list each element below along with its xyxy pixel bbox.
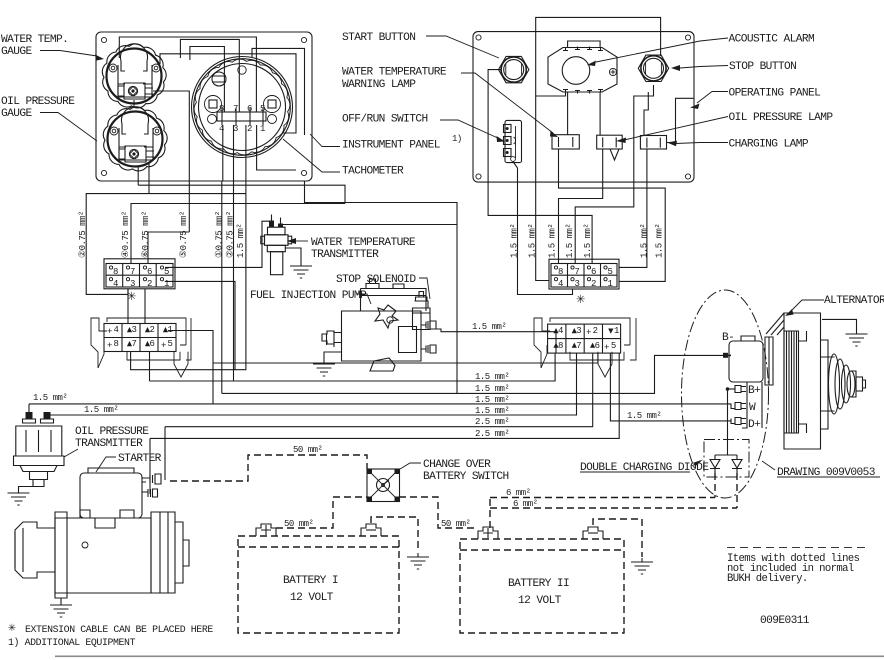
tachometer pin 8 (221, 108, 223, 125)
off/run switch inner plate (515, 126, 517, 158)
wire tach pin1 drop (222, 125, 224, 181)
svg-text:+: + (107, 341, 112, 351)
wire bundle h203 (131, 204, 345, 264)
alternator terminal plate (742, 382, 762, 428)
tachometer right mount square (264, 96, 281, 113)
svg-text:STOP BUTTON: STOP BUTTON (729, 61, 796, 73)
svg-text:OIL PRESSURE: OIL PRESSURE (75, 426, 149, 438)
battery II plus terminal (478, 527, 498, 539)
svg-text:B-: B- (722, 332, 734, 344)
svg-text:6 mm²: 6 mm² (513, 499, 538, 509)
starter motor body (15, 510, 189, 598)
oil pressure gauge bracket (119, 128, 153, 160)
off/run switch terminal 2 (504, 137, 512, 145)
svg-text:START BUTTON: START BUTTON (342, 32, 415, 44)
diode 2 (732, 455, 742, 474)
wire tach drop to R1 (233, 181, 235, 381)
starter ground (60, 598, 62, 602)
CN1 pin +7 (127, 341, 132, 346)
TB1 pin 2 (143, 278, 146, 281)
battery II minus terminal (583, 527, 603, 539)
alternator pulley (829, 354, 866, 414)
screw hole bottom-left (101, 170, 106, 175)
connector CN2 block (548, 324, 621, 353)
dashed wire 6mm upper (490, 497, 715, 499)
svg-text:1.5 mm²: 1.5 mm² (475, 406, 509, 416)
connector CN1 block (104, 324, 176, 352)
TB2 pin 3 (571, 278, 574, 281)
svg-text:+: + (604, 343, 609, 353)
row R2 1.5mm (222, 355, 724, 393)
TB2 pin 5 (604, 266, 607, 269)
svg-text:1.5 mm²: 1.5 mm² (640, 224, 650, 258)
wire starter feed 1 (164, 427, 166, 480)
tachometer small hole (238, 66, 246, 74)
TB1 pin 5 (160, 266, 163, 269)
W terminal (731, 403, 746, 410)
TB2 pin 1 (604, 278, 607, 281)
wire tach pin drop right (245, 125, 247, 194)
charging lamp (640, 136, 666, 150)
svg-text:5: 5 (608, 267, 613, 277)
svg-text:OIL PRESSURE: OIL PRESSURE (1, 96, 75, 108)
alternator ground (822, 319, 857, 330)
change over battery switch (367, 469, 400, 502)
svg-text:1): 1) (452, 134, 462, 144)
TB1 pin 7 (126, 266, 129, 269)
svg-text:1: 1 (608, 279, 613, 289)
svg-text:2: 2 (593, 326, 598, 336)
acoustic alarm screw (609, 68, 616, 75)
svg-text:①0.75 mm²: ①0.75 mm² (215, 211, 225, 258)
svg-text:6: 6 (591, 267, 596, 277)
svg-text:009E0311: 009E0311 (760, 615, 810, 627)
battery I minus terminal (361, 524, 381, 536)
svg-text:4: 4 (558, 279, 563, 289)
svg-text:1.5 mm²: 1.5 mm² (236, 224, 246, 258)
OPT ground (19, 487, 34, 490)
wire tach drop to R2 (221, 181, 223, 393)
water temp warning lamp (552, 135, 579, 149)
svg-text:6 mm²: 6 mm² (506, 488, 531, 498)
svg-text:ACOUSTIC ALARM: ACOUSTIC ALARM (729, 34, 815, 46)
svg-text:1.5 mm²: 1.5 mm² (565, 224, 575, 258)
stop solenoid (413, 292, 431, 330)
svg-text:BATTERY II: BATTERY II (508, 578, 569, 590)
svg-text:2: 2 (150, 325, 155, 335)
screw hole top-right (301, 37, 306, 42)
wire alarm left to TB2 pin4 (536, 93, 566, 281)
water temp gauge left screw (109, 64, 117, 72)
svg-text:GAUGE: GAUGE (1, 46, 32, 58)
svg-text:+: + (586, 328, 591, 338)
row R5 2.5mm (165, 353, 593, 427)
wire TB1 pin1 right (165, 281, 235, 369)
wire alarm to lamp2 (599, 93, 601, 136)
screw hole bottom-right (301, 170, 306, 175)
wire stop to lamp3 (644, 92, 648, 136)
TB2 pin 8 (554, 266, 557, 269)
oil pressure gauge right screw (153, 127, 161, 135)
svg-text:1.5 mm²: 1.5 mm² (84, 405, 118, 415)
start button outer circle (501, 57, 526, 82)
svg-text:5: 5 (164, 267, 169, 277)
wire diode to 6mm lower (736, 473, 738, 508)
oil pressure gauge cup (122, 107, 149, 134)
svg-text:STARTER: STARTER (118, 453, 162, 465)
screw hole top-right (685, 35, 690, 40)
tachometer pin 6 (249, 108, 251, 125)
CN1 pin +1 (163, 327, 168, 332)
CN2 pin +4 (553, 328, 558, 333)
svg-text:1.5 mm²: 1.5 mm² (33, 393, 67, 403)
svg-text:1.5 mm²: 1.5 mm² (475, 395, 509, 405)
terminal block TB2 (549, 259, 619, 289)
stop button hex nut (638, 55, 668, 81)
wire TB1 pin6 drop (148, 232, 189, 263)
oil pressure gauge bezel (103, 107, 167, 171)
wire starter feed 2 (149, 438, 151, 494)
terminal block TB1 (104, 259, 175, 289)
wire bundle h185 (138, 185, 345, 203)
water temp gauge cup (121, 44, 148, 71)
svg-text:④0.75 mm²: ④0.75 mm² (121, 211, 131, 258)
off/run switch terminal 3 (504, 149, 512, 157)
dashed wire 6mm lower (490, 507, 737, 509)
wire lamp1 to TB2 pin1 (559, 149, 666, 281)
TB2 pin 2 (587, 278, 590, 281)
water temp gauge bracket (118, 65, 152, 97)
connector CN2 housing (534, 318, 636, 377)
svg-text:EXTENSION CABLE CAN BE PLACED: EXTENSION CABLE CAN BE PLACED HERE (25, 624, 213, 635)
svg-text:TRANSMITTER: TRANSMITTER (75, 438, 143, 450)
svg-text:50 mm²: 50 mm² (441, 519, 471, 529)
battery I plus terminal (256, 524, 276, 536)
water temp gauge ring (107, 49, 162, 104)
svg-text:2: 2 (591, 279, 596, 289)
svg-text:BATTERY SWITCH: BATTERY SWITCH (423, 471, 509, 483)
wire TB1 pin2 to CN1 (144, 289, 146, 324)
battery I box (238, 536, 399, 633)
row R6 2.5mm (150, 353, 619, 438)
D+ terminal (731, 418, 746, 425)
note items dotted (727, 547, 870, 549)
svg-text:1.5 mm²: 1.5 mm² (475, 372, 509, 382)
water temp gauge right screw (152, 64, 160, 72)
CN2 pin +6 (590, 343, 595, 348)
svg-text:1.5 mm²: 1.5 mm² (472, 322, 506, 332)
svg-text:7: 7 (575, 267, 580, 277)
battery II inner line (460, 549, 624, 551)
svg-text:WATER TEMPERATURE: WATER TEMPERATURE (311, 237, 416, 249)
dashed wire starter to switch 50mm (170, 455, 367, 481)
TB1 pin 8 (109, 266, 112, 269)
wire WT to OP gauge (133, 100, 135, 108)
wire alarm top loop (568, 41, 601, 47)
svg-text:⑥0.75 mm²: ⑥0.75 mm² (141, 211, 151, 258)
wire TB1 pin3 to CN1 (127, 289, 129, 324)
TB1 pin 6 (143, 266, 146, 269)
wire CN1 +1 to h363 (168, 331, 598, 405)
diode internal bus (715, 454, 737, 456)
wire start button left (488, 70, 592, 264)
svg-text:D+: D+ (748, 419, 761, 431)
wire tach pin2 drop (233, 125, 235, 181)
wire loop B instrument panel (180, 39, 239, 112)
svg-text:5: 5 (260, 104, 265, 114)
tachometer inner ring (199, 64, 286, 151)
alternator body (766, 313, 835, 449)
svg-text:7: 7 (132, 339, 137, 349)
off/run switch body (505, 120, 522, 162)
wire tach pin drop 4 (257, 125, 296, 170)
svg-text:8: 8 (114, 339, 119, 349)
tachometer left mount square (205, 96, 222, 113)
svg-text:TRANSMITTER: TRANSMITTER (311, 249, 379, 261)
svg-text:12 VOLT: 12 VOLT (518, 595, 562, 607)
pump terminal upper (421, 321, 436, 329)
svg-text:50 mm²: 50 mm² (293, 445, 323, 455)
battery I ground (407, 553, 429, 569)
tachometer connector bar (217, 112, 266, 121)
wire lamp2 to TB2 pin8 (559, 149, 603, 264)
wire B+ to diode (727, 389, 729, 455)
TB1 pin 1 (160, 278, 163, 281)
wire CN1 +7 bottom loop (131, 194, 246, 370)
svg-text:4: 4 (114, 325, 119, 335)
svg-text:1: 1 (614, 326, 619, 336)
svg-text:OFF/RUN SWITCH: OFF/RUN SWITCH (342, 114, 428, 126)
row D+ feed 1.5mm (610, 353, 731, 421)
svg-text:ALTERNATOR: ALTERNATOR (824, 295, 884, 307)
svg-text:7: 7 (130, 267, 135, 277)
wire diode to 6mm upper (714, 473, 716, 498)
B- terminal pin (724, 354, 731, 356)
svg-text:FUEL INJECTION PUMP: FUEL INJECTION PUMP (250, 290, 367, 302)
stop button inner circle (644, 58, 664, 78)
double charging diode box (704, 440, 749, 478)
svg-text:6: 6 (147, 267, 152, 277)
CN2 pin +8 (553, 343, 558, 348)
wire loop A instrument panel (119, 37, 256, 112)
svg-text:OIL PRESSURE LAMP: OIL PRESSURE LAMP (729, 112, 834, 124)
operating panel (473, 32, 694, 183)
svg-text:1) ADDITIONAL EQUIPMENT: 1) ADDITIONAL EQUIPMENT (8, 637, 136, 648)
off/run switch bottom circle (511, 157, 516, 162)
svg-text:✳: ✳ (576, 291, 585, 308)
CN1 pin +6 (145, 341, 150, 346)
wire WTT drop to R2 (456, 225, 458, 394)
TB2 pin 6 (587, 266, 590, 269)
wire gauge pin7 drop (148, 162, 150, 194)
svg-text:4: 4 (558, 326, 563, 336)
dashed wire battery I plus to switch (276, 497, 367, 528)
svg-text:1.5 mm²: 1.5 mm² (583, 224, 593, 258)
svg-text:2: 2 (147, 279, 152, 289)
svg-text:5: 5 (611, 341, 616, 351)
tachometer pin 5 (262, 108, 264, 125)
acoustic alarm top terminals (563, 47, 603, 51)
svg-text:WATER TEMPERATURE: WATER TEMPERATURE (342, 67, 447, 79)
svg-text:BATTERY I: BATTERY I (283, 575, 338, 587)
dashed wire battery I minus to ground (371, 517, 418, 552)
screw hole top-left (101, 37, 106, 42)
alternator regulator B- box (729, 336, 773, 385)
dashed wire switch to battery II plus (399, 497, 478, 528)
WTT ground (285, 248, 301, 262)
start button face lines (506, 64, 522, 75)
svg-text:BUKH delivery.: BUKH delivery. (727, 573, 808, 585)
svg-text:12 VOLT: 12 VOLT (290, 592, 334, 604)
wire gauge terminal to TB1 pin6 (153, 91, 189, 232)
stop button outer circle (641, 56, 666, 81)
instrument panel (96, 32, 312, 181)
svg-text:7: 7 (233, 104, 238, 114)
tachometer ring 2 (194, 59, 291, 156)
svg-text:1.5 mm²: 1.5 mm² (548, 224, 558, 258)
TB2 pin 4 (554, 278, 557, 281)
screw hole bottom-left (476, 174, 481, 179)
row R1 1.5mm (150, 353, 556, 381)
tachometer lamp cap (212, 72, 226, 86)
svg-text:8: 8 (558, 341, 563, 351)
tachometer left mount circle (208, 115, 217, 124)
CN1 pin +2 (145, 327, 150, 332)
starter terminal S (142, 489, 158, 497)
start button inner circle (504, 60, 524, 80)
CN2 pin +1 (608, 329, 613, 334)
svg-text:INSTRUMENT PANEL: INSTRUMENT PANEL (342, 140, 441, 152)
TB1 pin 3 (126, 278, 129, 281)
connector CN1 housing (91, 318, 191, 377)
svg-text:6: 6 (595, 341, 600, 351)
wire lamp3 to TB2 pin5 (619, 149, 647, 267)
screw hole bottom-right (685, 174, 690, 179)
svg-text:6: 6 (150, 339, 155, 349)
tachometer outer ring (192, 57, 293, 158)
bottom rule (55, 656, 884, 658)
wire bundle h193 (86, 194, 246, 295)
B+ terminal (735, 386, 746, 393)
battery II box (460, 539, 624, 633)
svg-text:1.5 mm²: 1.5 mm² (627, 411, 661, 421)
svg-text:50 mm²: 50 mm² (284, 519, 314, 529)
svg-text:1.5 mm²: 1.5 mm² (475, 384, 509, 394)
wire panel drop to bundle (305, 181, 458, 225)
svg-text:3: 3 (575, 279, 580, 289)
TB1 pin 4 (109, 278, 112, 281)
tachometer scallop ring (194, 59, 290, 155)
wire lamp2 lamp3 V link (610, 149, 619, 160)
svg-text:OPERATING PANEL: OPERATING PANEL (729, 88, 822, 100)
svg-text:3: 3 (576, 326, 581, 336)
oil pressure transmitter (14, 404, 65, 487)
TB2 pin 7 (571, 266, 574, 269)
svg-text:②0.75 mm²: ②0.75 mm² (78, 211, 88, 258)
wire stop button to TB2 pin7 (575, 85, 653, 264)
tachometer pin 7 (235, 108, 237, 125)
svg-text:3: 3 (132, 325, 137, 335)
pump ground (324, 352, 341, 360)
oil pressure gauge ring (108, 112, 163, 167)
water temperature transmitter (261, 215, 292, 275)
row R3 1.5mm oil pressure (29, 403, 731, 405)
svg-text:✳: ✳ (8, 620, 16, 635)
svg-text:STOP SOLENOID: STOP SOLENOID (336, 274, 416, 286)
svg-text:GAUGE: GAUGE (1, 108, 32, 120)
svg-text:1.5 mm²: 1.5 mm² (510, 224, 520, 258)
dashed wire battery II plus up (489, 498, 491, 529)
wire CN1 +6 bottom to row1 (149, 352, 151, 381)
svg-text:4: 4 (113, 279, 118, 289)
svg-text:5: 5 (168, 339, 173, 349)
svg-text:CHARGING LAMP: CHARGING LAMP (729, 139, 809, 151)
oil pressure lamp (597, 135, 623, 149)
svg-text:2: 2 (247, 124, 252, 134)
diode 1 (710, 455, 720, 474)
acoustic alarm bottom terminals (563, 90, 603, 94)
oil pressure gauge left screw (110, 127, 118, 135)
pump terminal lower (421, 345, 436, 353)
svg-text:2.5 mm²: 2.5 mm² (475, 429, 509, 439)
acoustic alarm circle (562, 57, 590, 85)
wire lamp3 right link (667, 98, 695, 142)
wire alarm to lamp1 (567, 93, 569, 135)
svg-text:1: 1 (260, 124, 265, 134)
wire off/run drop (513, 162, 573, 295)
svg-text:2.5 mm²: 2.5 mm² (475, 417, 509, 427)
CN2 pin +3 (572, 328, 577, 333)
CN2 pin +7 (572, 343, 577, 348)
dashed wire battery II minus to ground (593, 519, 642, 557)
wire gauge link E (160, 54, 296, 133)
battery II ground (631, 558, 653, 574)
start button hex nut (499, 56, 529, 82)
svg-text:W: W (749, 402, 756, 414)
svg-text:1: 1 (164, 279, 169, 289)
svg-text:WARNING LAMP: WARNING LAMP (342, 79, 416, 91)
acoustic alarm octagon (548, 48, 617, 93)
water temp gauge terminal (118, 83, 153, 99)
svg-text:8: 8 (113, 267, 118, 277)
svg-text:B+: B+ (748, 385, 761, 397)
svg-text:CHANGE OVER: CHANGE OVER (423, 459, 491, 471)
dash-dot ellipse alternator group (682, 290, 769, 498)
starter terminal B (142, 474, 161, 484)
wire WTT to right (281, 224, 458, 226)
wire over-panel loop (536, 17, 661, 96)
svg-text:8: 8 (558, 267, 563, 277)
svg-text:TACHOMETER: TACHOMETER (342, 166, 404, 178)
svg-text:+: + (107, 327, 112, 337)
wire TB1 pin5 to WTT (165, 221, 271, 267)
stop button face lines (646, 63, 662, 74)
oil pressure gauge terminal (119, 146, 154, 162)
svg-text:⑤0.75 mm²: ⑤0.75 mm² (179, 211, 189, 258)
svg-text:7: 7 (576, 341, 581, 351)
svg-text:1.5 mm²: 1.5 mm² (655, 224, 665, 258)
svg-text:②0.75 mm²: ②0.75 mm² (226, 211, 236, 258)
wire gauge bottom drop (137, 166, 139, 185)
svg-text:6: 6 (247, 104, 252, 114)
water temp gauge bezel (102, 44, 166, 108)
CN1 pin +3 (127, 327, 132, 332)
starter solenoid (80, 468, 142, 518)
wire loop D instrument panel (252, 48, 305, 135)
wire pump to CN2 (436, 329, 556, 353)
tachometer right mount circle (268, 115, 277, 124)
row R4 1.5mm oil pressure 2 (47, 353, 577, 415)
